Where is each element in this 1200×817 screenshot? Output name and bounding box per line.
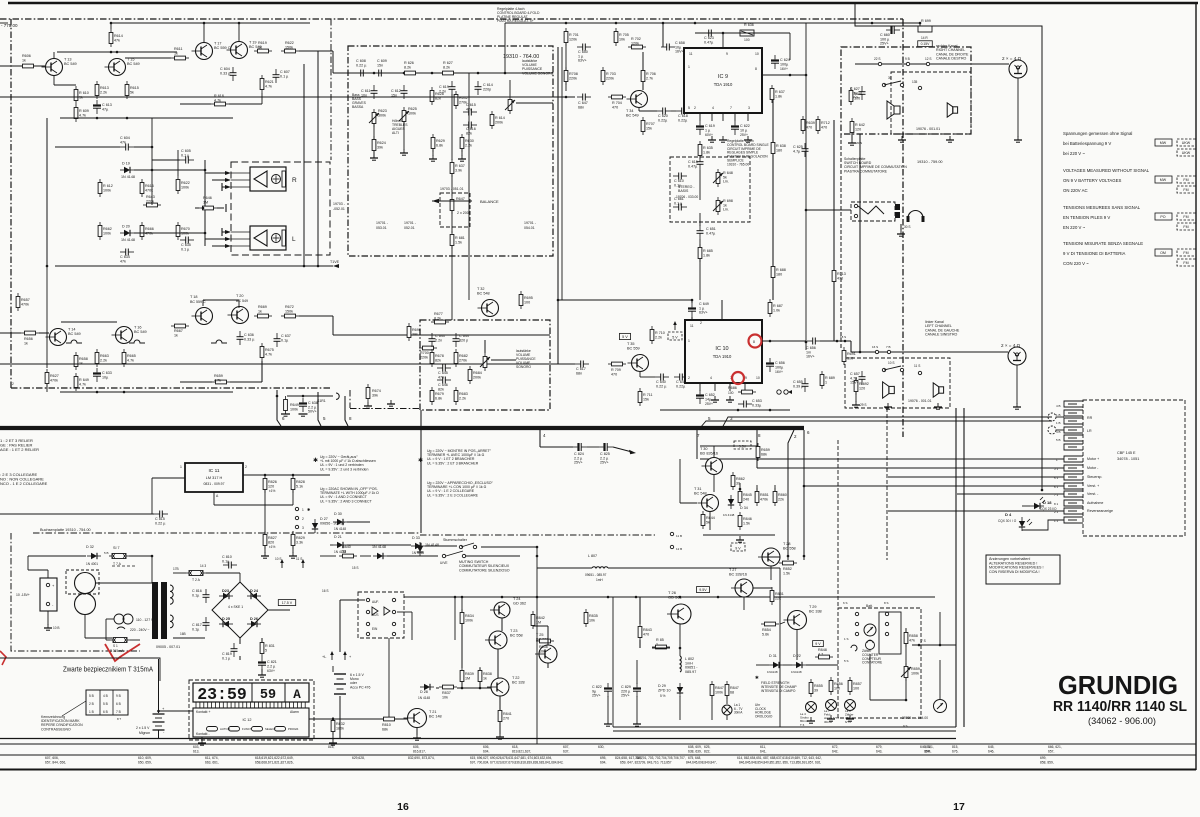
wire left col x28 (27, 556, 29, 570)
resistor spkR (282, 171, 286, 187)
svg-text:2.2n: 2.2n (435, 338, 442, 342)
contact sel 2 (295, 516, 298, 519)
svg-text:676,: 676, (952, 750, 959, 754)
wire r858 (905, 628, 907, 632)
pot R859 (904, 667, 908, 678)
resistor R639 (801, 120, 805, 131)
svg-text:68k: 68k (382, 727, 388, 731)
svg-text:0.1µ: 0.1µ (192, 627, 200, 631)
resistor R643 (147, 203, 158, 207)
svg-text:6: 6 (282, 416, 285, 421)
svg-text:2 x 1.5 V: 2 x 1.5 V (136, 726, 150, 730)
svg-text:0.47µ: 0.47µ (706, 231, 716, 235)
wire t26 net (639, 597, 641, 624)
selector 220 (117, 627, 125, 629)
wire bottom bus amp2 (60, 391, 233, 393)
svg-text:9 V: 9 V (735, 547, 741, 551)
svg-text:39k: 39k (372, 393, 378, 397)
amp board dashed left edge (10, 19, 12, 388)
svg-text:15k: 15k (643, 397, 649, 401)
svg-text:815,: 815, (328, 745, 335, 749)
svg-text:BC 559 C: BC 559 C (190, 300, 206, 304)
resistor R 705 (614, 32, 618, 43)
svg-text:7 S: 7 S (921, 639, 926, 643)
wire t13 emitter (53, 76, 55, 85)
resistor R844 (701, 515, 705, 526)
resistor R619 (258, 49, 269, 53)
ground R642 (851, 133, 853, 140)
ground (855, 401, 857, 405)
svg-text:S 1: S 1 (113, 644, 118, 648)
svg-text:10µ: 10µ (102, 375, 109, 379)
diode D 19 (124, 167, 130, 173)
svg-text:604,: 604, (483, 750, 490, 754)
headphone jack dashed box (851, 202, 895, 221)
node arrows top (302, 561, 304, 568)
capacitor C640 (660, 374, 662, 381)
svg-text:EIN: EIN (372, 627, 378, 631)
svg-text:29 S: 29 S (860, 403, 867, 407)
svg-text:✱: ✱ (307, 507, 311, 512)
svg-text:INTENSITÀ DI CAMPO: INTENSITÀ DI CAMPO (761, 689, 796, 693)
svg-text:12 B: 12 B (676, 547, 682, 551)
connector pin U2 (1064, 410, 1083, 416)
svg-text:A: A (216, 494, 219, 498)
svg-text:1M: 1M (203, 200, 208, 204)
svg-text:Buchsenplatte 19310 - 754.00: Buchsenplatte 19310 - 754.00 (40, 528, 91, 532)
svg-text:EN 220 V ~: EN 220 V ~ (1063, 225, 1086, 230)
svg-text:120k: 120k (631, 41, 639, 45)
svg-text:68n: 68n (576, 371, 582, 375)
resistor R615 (125, 85, 129, 96)
svg-text:VOLUME SONORO: VOLUME SONORO (522, 71, 554, 75)
resistor R 637 (450, 163, 454, 174)
svg-text:470: 470 (643, 632, 649, 636)
resistor R707 (641, 121, 645, 132)
wire T13 base net (125, 57, 171, 59)
svg-text:Batt.: Batt. (866, 604, 873, 608)
svg-text:0.47µ: 0.47µ (704, 40, 714, 44)
svg-text:5: 5 (708, 416, 711, 421)
svg-text:47k: 47k (909, 638, 915, 642)
svg-text:611, 674,: 611, 674, (205, 756, 219, 760)
counter coil (851, 645, 857, 651)
wire out lower right (299, 315, 333, 317)
wire tone input bus (333, 72, 553, 74)
svg-text:T 20: T 20 (236, 294, 244, 298)
ground (264, 552, 266, 556)
svg-text:9: 9 (745, 376, 747, 380)
svg-text:16: 16 (397, 801, 409, 813)
svg-text:D 30: D 30 (334, 512, 342, 516)
svg-text:- 064.00: - 064.00 (916, 716, 928, 720)
svg-text:1.5k: 1.5k (783, 571, 790, 575)
svg-text:D 31: D 31 (769, 654, 777, 658)
wire l807 (537, 567, 592, 569)
svg-text:3: 3 (302, 526, 304, 530)
ground (810, 717, 812, 721)
svg-text:642,: 642, (832, 750, 839, 754)
connector pin L2 (1064, 465, 1083, 471)
svg-text:100k: 100k (103, 188, 111, 192)
lamp La8 (845, 700, 856, 711)
capacitor C660 (890, 26, 892, 34)
wire mute (347, 544, 411, 546)
svg-text:1k: 1k (79, 361, 83, 365)
wire c821 gnd (261, 669, 263, 672)
resistor R669 (258, 314, 269, 318)
wire left ch step (850, 341, 852, 352)
diode mute2 (417, 546, 423, 552)
svg-text:1.8k: 1.8k (703, 253, 710, 257)
contacts left ch (875, 350, 878, 353)
switch triangles (372, 607, 378, 615)
ground (747, 136, 749, 140)
resistor R656 (25, 331, 36, 335)
speaker R cone (254, 171, 267, 187)
capacitor C648 (679, 374, 681, 381)
svg-text:1k: 1k (258, 45, 262, 49)
capacitor C645b (697, 161, 704, 163)
capacitor C611 (371, 90, 378, 92)
svg-text:1 S: 1 S (844, 637, 849, 641)
capacitor C817 (203, 622, 210, 624)
transistor T27 (735, 579, 753, 597)
svg-text:D 34: D 34 (740, 506, 748, 510)
svg-text:IC 10: IC 10 (715, 346, 728, 352)
svg-text:11: 11 (690, 324, 694, 328)
svg-text:-: - (163, 729, 165, 734)
mains switch dashed box (358, 592, 404, 638)
ground (607, 720, 609, 724)
resistor R629 (431, 138, 435, 149)
svg-text:T 16: T 16 (134, 326, 142, 330)
resistor R678 (430, 353, 434, 364)
buchsenplatte dash extension (420, 534, 655, 536)
wire T17 T19 tops (203, 23, 205, 42)
resistor R614 (109, 33, 113, 44)
resistor R665 (122, 353, 126, 364)
IC9 box (684, 48, 762, 113)
svg-text:2.2k: 2.2k (655, 335, 662, 339)
wire x47 upper (46, 118, 48, 266)
svg-text:100k: 100k (911, 671, 919, 675)
svg-text:2 B: 2 B (89, 702, 94, 706)
svg-text:19076 - 001.01: 19076 - 001.01 (908, 399, 932, 403)
wire r629 gnd (432, 149, 434, 156)
amp board dashed bottom edge (11, 387, 332, 389)
resistor spkL (282, 230, 286, 246)
red circle IC10 pin8 (749, 335, 762, 348)
capacitor C618 (681, 108, 683, 115)
svg-text:BASSA: BASSA (352, 105, 364, 109)
wire t30 cluster (700, 445, 758, 447)
svg-text:1: 1 (825, 380, 827, 384)
wire out right (299, 50, 333, 52)
svg-text:0.1 µ: 0.1 µ (674, 201, 683, 205)
svg-text:10 S: 10 S (275, 557, 282, 561)
svg-text:613,: 613, (193, 750, 200, 754)
svg-text:CANALE SINISTRO: CANALE SINISTRO (925, 333, 958, 337)
battery cells (332, 666, 334, 672)
bridge rectifier (212, 582, 268, 638)
svg-text:59: 59 (260, 688, 276, 703)
resistor R683 (454, 391, 458, 402)
svg-text:T 22: T 22 (512, 676, 520, 680)
wire x558 (557, 47, 559, 364)
svg-text:CQX 23 I/O: CQX 23 I/O (1040, 507, 1057, 511)
svg-text:30: 30 (888, 76, 892, 80)
diode D21 (337, 542, 343, 548)
svg-text:4.7k: 4.7k (265, 84, 272, 88)
svg-text:D 33: D 33 (412, 536, 420, 540)
resistor R 685 (698, 248, 702, 259)
svg-text:10: 10 (756, 376, 760, 380)
switch contacts left (882, 368, 885, 371)
resistor R713 (832, 271, 836, 282)
svg-text:23:59: 23:59 (197, 685, 247, 704)
svg-text:25V+: 25V+ (740, 133, 748, 137)
svg-text:D 24: D 24 (250, 589, 259, 593)
diode D29 zener (677, 687, 683, 693)
transistor T31 (702, 495, 719, 512)
resistor R828 (291, 479, 295, 490)
svg-text:8 1: 8 1 (1054, 502, 1059, 506)
resistor R855 (809, 683, 813, 694)
svg-text:846,845,848,854,840,851,852, 8: 846,845,848,854,840,851,852, 856, 713,85… (739, 761, 821, 765)
svg-text:6 B: 6 B (103, 710, 108, 714)
wire battery bottom (158, 730, 160, 738)
svg-text:14 3: 14 3 (200, 564, 206, 568)
svg-text:646,: 646, (988, 750, 995, 754)
resistor R845 (738, 492, 742, 503)
wire spk2 gnd (1016, 365, 1018, 404)
svg-text:CBF 145 E: CBF 145 E (1117, 451, 1136, 455)
transistor T 14 (50, 329, 67, 346)
resistor R712 (816, 120, 820, 131)
wire T13 top (53, 52, 55, 58)
svg-text:9 S: 9 S (903, 724, 908, 728)
sec bot wire (173, 637, 205, 639)
IC12 buttons (207, 727, 218, 732)
wire x860 (859, 134, 861, 352)
capacitor C 619 (696, 125, 704, 127)
svg-text:PIASTRA COMMUTATORE: PIASTRA COMMUTATORE (844, 169, 888, 173)
wire phones bus (806, 209, 851, 211)
svg-text:47µ: 47µ (102, 107, 109, 111)
wire y160 stub (152, 159, 180, 161)
svg-text:11: 11 (689, 52, 693, 56)
svg-text:694,: 694, (600, 761, 607, 765)
svg-text:4.7k: 4.7k (127, 358, 134, 362)
svg-text:BASIS: BASIS (678, 189, 689, 193)
svg-text:68k: 68k (761, 452, 767, 456)
resistor R 638 (771, 143, 775, 154)
counter dashed box (838, 608, 921, 718)
diode D25 (223, 621, 229, 627)
svg-text:8.2k: 8.2k (404, 65, 411, 69)
resistor R846 (738, 516, 742, 527)
ground (201, 739, 203, 743)
svg-text:CQX 30 I / O: CQX 30 I / O (998, 519, 1017, 523)
dashed vertical x=838 upper (837, 440, 839, 608)
wire lower preamp in (0, 363, 575, 365)
wire vol2 out (484, 340, 486, 353)
svg-text:D 25: D 25 (222, 617, 230, 621)
resistor R657 (16, 297, 20, 308)
ground (722, 136, 724, 140)
wire d31 bus (756, 664, 769, 666)
svg-text:±1%: ±1% (269, 545, 276, 549)
svg-text:5 B: 5 B (1056, 438, 1061, 442)
ground (499, 733, 501, 737)
svg-text:2.2k: 2.2k (100, 90, 107, 94)
svg-text:679,: 679, (876, 745, 883, 749)
svg-text:18 S: 18 S (840, 335, 846, 339)
wire 2 drop (788, 430, 794, 560)
id leader line (62, 701, 86, 716)
resistor R684 (468, 370, 472, 381)
diode D24 (251, 593, 257, 599)
battery holder contacts (46, 583, 49, 586)
svg-text:T 14: T 14 (68, 328, 76, 332)
wire c815 bus (0, 513, 154, 515)
svg-text:Steuersp.: Steuersp. (1087, 475, 1102, 479)
svg-text:R: R (292, 177, 297, 184)
svg-text:832,690, 873,874,: 832,690, 873,874, (408, 756, 435, 760)
svg-text:BC 549: BC 549 (626, 113, 639, 117)
mute contacts (442, 554, 445, 557)
wire diag fan (762, 428, 788, 443)
wire bridge down (239, 638, 241, 644)
svg-text:1 B: 1 B (1056, 413, 1061, 417)
svg-text:R686: R686 (728, 386, 737, 390)
svg-text:✱: ✱ (313, 457, 318, 464)
gnd r827 (264, 546, 266, 553)
ground (373, 154, 375, 158)
meter bottom (934, 700, 947, 713)
wire vertical x178 (177, 150, 179, 176)
capacitor C658 (666, 44, 668, 51)
legend boxes OM FM (1155, 249, 1172, 256)
svg-text:100: 100 (847, 356, 853, 360)
svg-text:4.7µ: 4.7µ (793, 149, 801, 153)
alterations reserved box (986, 555, 1060, 584)
wire ic11 left (152, 477, 185, 479)
svg-text:AUF.: AUF. (372, 600, 379, 604)
svg-text:1k: 1k (174, 51, 178, 55)
svg-text:T 23: T 23 (510, 629, 518, 633)
connector pin L8 (1064, 517, 1083, 523)
resistor R837 (443, 685, 454, 689)
svg-text:19310 - 765.00: 19310 - 765.00 (727, 162, 749, 166)
svg-text:53: 53 (342, 549, 346, 553)
capacitor C824 (577, 443, 579, 451)
svg-text:815,: 815, (952, 745, 959, 749)
svg-text:630,: 630, (598, 745, 605, 749)
wire x469 (468, 73, 470, 300)
svg-text:5: 5 (265, 648, 267, 652)
wire vol2 input bus (420, 334, 550, 336)
svg-text:819,821,637,: 819,821,637, (512, 750, 531, 754)
resistor R659 (216, 380, 227, 384)
resistor R835 (584, 613, 588, 624)
svg-text:16V+: 16V+ (806, 355, 815, 359)
resistor R832 (331, 721, 335, 732)
5V dashed box (668, 332, 682, 340)
svg-text:T 34: T 34 (626, 109, 634, 113)
svg-text:1N 4001: 1N 4001 (86, 562, 98, 566)
wire sec to bridge (206, 572, 240, 574)
wire spkL leads (205, 238, 225, 240)
IC10 box (685, 320, 762, 383)
svg-text:D 22: D 22 (793, 654, 801, 658)
wire batt gnd (47, 611, 49, 625)
svg-text:9 V: 9 V (815, 642, 821, 646)
svg-text:AGE : 1 ET 2 RELIER: AGE : 1 ET 2 RELIER (0, 447, 39, 452)
capacitor C 613 (93, 104, 101, 106)
gnd r829 (292, 546, 294, 553)
svg-text:D 26.: D 26. (250, 617, 259, 621)
svg-text:19703 -: 19703 - (333, 202, 346, 206)
svg-text:2.2k: 2.2k (459, 396, 466, 400)
svg-text:4 B: 4 B (1056, 404, 1061, 408)
capacitor C810 (228, 562, 230, 569)
svg-text:0.22µ: 0.22µ (658, 118, 668, 122)
svg-text:608, 609,: 608, 609, (688, 745, 702, 749)
battery 2x1.5V Mignon (158, 659, 160, 713)
S1R1 contacts above bar (277, 390, 281, 426)
svg-text:470k: 470k (21, 302, 29, 306)
svg-text:659, 647, 822,: 659, 647, 822, (620, 761, 641, 765)
wire R659 net (230, 381, 262, 383)
speaker module R box (250, 167, 286, 191)
wire x462 up (461, 597, 463, 612)
ground (714, 396, 716, 400)
svg-text:8: 8 (349, 416, 352, 421)
wire top bus mid (111, 22, 310, 24)
svg-text:T 7 A: T 7 A (113, 562, 122, 566)
resistor R 610 (74, 90, 78, 101)
connector pin U4 (1064, 427, 1083, 433)
svg-text:T 30: T 30 (700, 447, 708, 451)
resistor R856 (829, 681, 833, 692)
svg-text:ALTI: ALTI (392, 131, 399, 135)
capacitor C829 (633, 687, 641, 689)
svg-text:BC 148: BC 148 (429, 714, 442, 718)
wire IC9 top pin9 (722, 33, 724, 48)
wire collector bus (57, 51, 177, 53)
boxed 17.5V (278, 600, 295, 606)
switch board dashed box (841, 47, 971, 134)
ground (849, 715, 851, 719)
svg-text:1N 4148: 1N 4148 (372, 545, 386, 549)
speaker L input arrows (225, 230, 231, 234)
speaker cone right 2 (953, 107, 958, 113)
svg-text:PIASTRA REGOLAT. 4+: PIASTRA REGOLAT. 4+ (497, 19, 534, 23)
svg-text:220 - 240V ~: 220 - 240V ~ (130, 628, 150, 632)
svg-text:5: 5 (323, 416, 326, 421)
svg-text:0831 - 009.97: 0831 - 009.97 (204, 482, 225, 486)
page frame right border (1195, 3, 1197, 770)
ground C638b (299, 413, 308, 415)
capacitor C638b (299, 402, 307, 404)
ground (887, 403, 889, 407)
svg-text:615, 696,627, 690,626,678,631,: 615, 696,627, 690,626,678,631,647,681, 6… (470, 756, 552, 760)
wire stumm (481, 546, 537, 548)
svg-text:16 S: 16 S (322, 589, 329, 593)
wire input left (0, 65, 45, 67)
